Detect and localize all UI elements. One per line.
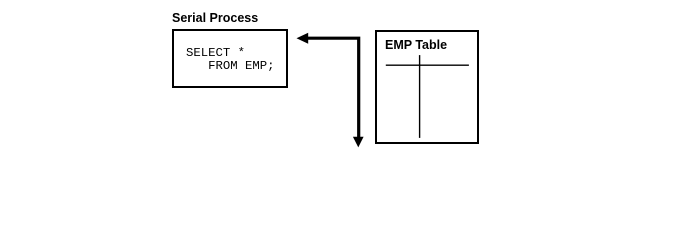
label "Serial Process" [172,11,258,25]
table symbol: T inside EMP Table box [386,55,469,138]
arrowhead down [353,137,364,148]
text: SQL statement [186,47,275,74]
label "EMP Table" [385,38,447,52]
box: Serial Process [172,29,288,88]
arrow: elbow from EMP Table to Serial Process (left head) and down (bottom head) [297,33,364,148]
table symbol horizontal rule [386,64,469,66]
arrowhead left [297,33,309,44]
wire: arrow shaft elbow [308,37,361,138]
table symbol vertical rule [419,55,421,138]
box: EMP Table [375,30,479,144]
